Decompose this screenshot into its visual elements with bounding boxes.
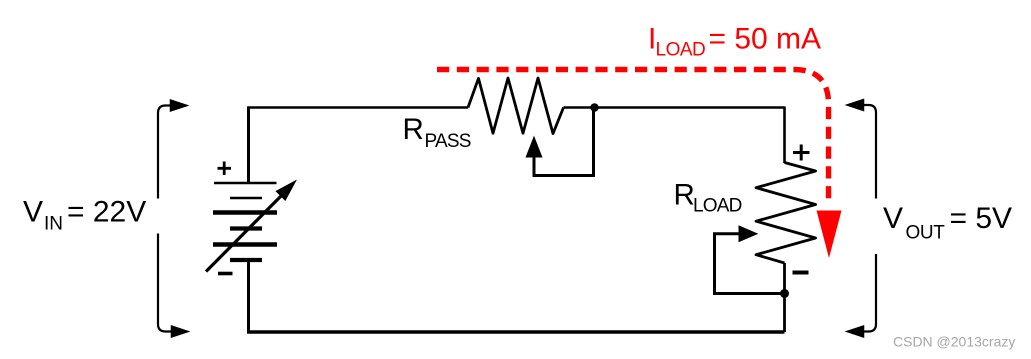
svg-text:CSDN @2013crazy: CSDN @2013crazy <box>893 334 1015 350</box>
battery plus sign <box>218 162 232 176</box>
svg-text:LOAD: LOAD <box>693 196 742 217</box>
battery V1 plate 5 long thick <box>213 242 277 247</box>
R_LOAD plus sign <box>793 145 810 161</box>
right bracket bottom arrowhead <box>847 326 864 337</box>
svg-text:= 22V: = 22V <box>67 195 146 228</box>
wire right vertical bottom lead <box>783 263 786 332</box>
wiper arrow of R_LOAD <box>739 226 757 242</box>
wiper arrow of R_PASS <box>526 137 542 157</box>
left bracket top arrowhead <box>171 100 188 111</box>
left bracket bottom arrowhead <box>172 326 189 337</box>
svg-text:= 5V: = 5V <box>950 202 1013 235</box>
svg-text:IN: IN <box>44 213 63 234</box>
battery V1 plate 6 short thick <box>230 258 262 262</box>
wire top-right horizontal <box>564 106 785 109</box>
left measurement bracket vertical line <box>158 106 173 332</box>
svg-text:V: V <box>23 195 43 228</box>
right measurement bracket vertical line <box>861 105 876 332</box>
wire R_LOAD wiper loop <box>715 234 784 294</box>
svg-text:OUT: OUT <box>906 222 946 243</box>
red current arrowhead <box>817 211 842 259</box>
right bracket top arrowhead <box>847 100 864 111</box>
wire left vertical bottom lead <box>247 260 250 332</box>
svg-text:R: R <box>674 179 695 212</box>
node junction dot at R_LOAD tap <box>780 289 789 298</box>
wire left vertical top lead <box>247 107 250 184</box>
red dashed current path I_LOAD <box>437 70 829 205</box>
battery V1 plate 4 short thick <box>230 226 262 230</box>
R_LOAD minus sign <box>793 271 809 275</box>
battery V1 plate 1 long thin <box>214 182 277 184</box>
svg-text:PASS: PASS <box>425 131 471 152</box>
svg-text:LOAD: LOAD <box>656 40 706 61</box>
resistor R_LOAD <box>756 163 816 264</box>
wire right vertical top lead <box>783 107 786 164</box>
wire bottom horizontal <box>247 330 785 334</box>
wire R_PASS wiper loop <box>534 108 594 176</box>
battery variable arrow <box>206 182 295 272</box>
battery V1 plate 2 short thin <box>230 197 262 199</box>
battery V1 plate 3 long thick <box>213 210 277 215</box>
wire top-left horizontal <box>247 106 468 109</box>
svg-text:= 50 mA: = 50 mA <box>709 23 822 56</box>
node junction dot at R_PASS tap <box>590 103 599 112</box>
svg-text:V: V <box>883 202 903 235</box>
battery minus sign <box>218 272 233 276</box>
svg-text:R: R <box>403 113 424 146</box>
resistor R_PASS <box>468 78 564 134</box>
